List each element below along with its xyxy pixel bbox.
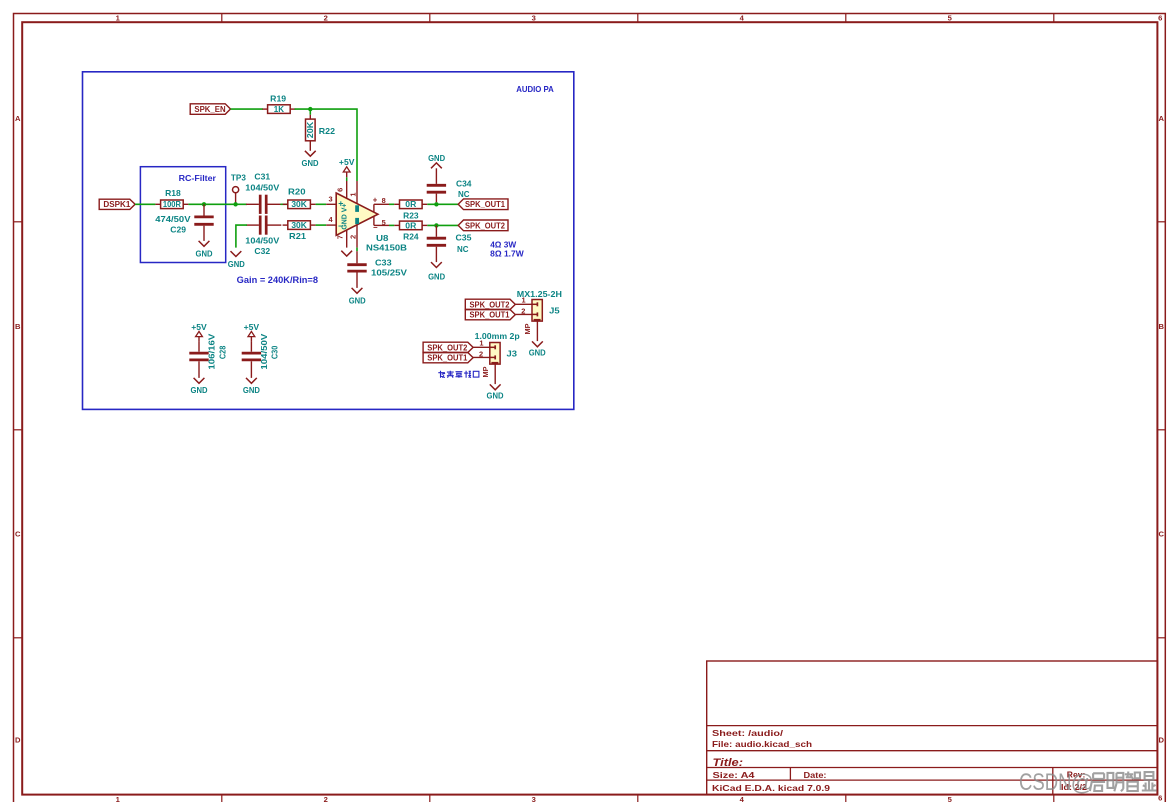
- resistor R21: [283, 221, 316, 241]
- svg-text:R23: R23: [403, 211, 419, 221]
- title block text: [712, 729, 1087, 793]
- connector J3: [475, 331, 520, 384]
- global label DSPK1: [99, 199, 135, 209]
- ground below C30: [243, 378, 260, 395]
- svg-text:SPK_OUT2: SPK_OUT2: [470, 300, 511, 309]
- svg-text:A: A: [15, 114, 21, 123]
- svg-text:J5: J5: [549, 305, 560, 315]
- svg-text:SPK_OUT1: SPK_OUT1: [470, 311, 511, 320]
- svg-text:Size: A4: Size: A4: [713, 771, 756, 780]
- svg-text:DSPK1: DSPK1: [103, 200, 131, 209]
- svg-text:+: +: [373, 196, 378, 205]
- svg-text:B: B: [1159, 322, 1165, 331]
- svg-text:4: 4: [740, 795, 745, 802]
- ground below C32: [228, 251, 245, 269]
- wire R21 to U8 pin 4: [316, 224, 327, 226]
- global label SPK_OUT2 at J3 pin 1: [423, 342, 473, 352]
- svg-text:1: 1: [349, 193, 358, 197]
- svg-text:GND: GND: [428, 272, 445, 282]
- wire C31 to R20: [281, 203, 288, 205]
- svg-text:MP: MP: [481, 367, 490, 378]
- junction at TP3: [233, 202, 237, 206]
- ground below C28: [191, 378, 208, 395]
- svg-text:7: 7: [335, 235, 344, 239]
- wire DSPK1 to R18: [135, 203, 155, 205]
- svg-text:Title:: Title:: [713, 757, 744, 769]
- svg-text:NC: NC: [458, 189, 470, 199]
- svg-text:30K: 30K: [291, 200, 307, 209]
- svg-text:3: 3: [532, 795, 536, 802]
- svg-text:C: C: [15, 530, 21, 539]
- svg-text:2: 2: [479, 350, 483, 359]
- resistor R20: [283, 186, 316, 209]
- capacitor C30: [242, 333, 280, 378]
- svg-text:KiCad E.D.A. kicad 7.0.9: KiCad E.D.A. kicad 7.0.9: [712, 784, 831, 793]
- ground below C35: [428, 262, 445, 282]
- wire R24 to SPK_OUT2: [427, 224, 458, 226]
- svg-text:8Ω 1.7W: 8Ω 1.7W: [490, 248, 524, 258]
- wire R23 to SPK_OUT1: [427, 203, 458, 205]
- wire C32 to ground: [236, 225, 247, 248]
- capacitor C31: [245, 171, 281, 214]
- svg-text:104/50V: 104/50V: [259, 333, 269, 369]
- svg-text:D: D: [15, 736, 21, 745]
- svg-text:106/16V: 106/16V: [207, 333, 217, 369]
- title block: [707, 661, 1158, 795]
- global label SPK_OUT2 at J5 pin 1: [465, 299, 515, 309]
- svg-text:1: 1: [116, 795, 121, 802]
- svg-text:File: audio.kicad_sch: File: audio.kicad_sch: [712, 740, 812, 749]
- global label SPK_EN: [190, 104, 230, 115]
- svg-text:SPK_OUT2: SPK_OUT2: [465, 221, 506, 230]
- svg-text:C28: C28: [217, 345, 227, 359]
- svg-text:2: 2: [324, 14, 328, 23]
- power +5V at C30: [244, 322, 260, 342]
- svg-text:SPK_OUT1: SPK_OUT1: [465, 200, 506, 209]
- ground below U8 pin 7: [341, 251, 352, 256]
- svg-text:104/50V: 104/50V: [245, 235, 279, 245]
- svg-text:MP: MP: [523, 324, 532, 335]
- svg-text:1: 1: [522, 296, 526, 305]
- svg-text:6: 6: [1158, 794, 1162, 802]
- capacitor C35: [427, 225, 472, 262]
- svg-text:3: 3: [329, 194, 333, 203]
- capacitor C33: [347, 251, 407, 288]
- svg-text:R19: R19: [270, 93, 286, 103]
- svg-text:104/50V: 104/50V: [245, 182, 279, 192]
- global label SPK_OUT1 at J3 pin 2: [423, 353, 473, 363]
- svg-text:5: 5: [948, 795, 953, 802]
- global label SPK_OUT2: [458, 220, 508, 231]
- svg-text:20K: 20K: [306, 121, 315, 138]
- svg-text:GND: GND: [228, 259, 245, 269]
- svg-text:A: A: [1159, 114, 1165, 123]
- svg-text:4: 4: [329, 215, 334, 224]
- wire SPK_EN to R19: [231, 108, 264, 110]
- test point TP3: [231, 173, 246, 205]
- svg-text:R18: R18: [165, 188, 181, 198]
- svg-text:C35: C35: [456, 232, 472, 242]
- svg-text:C31: C31: [254, 171, 270, 181]
- svg-text:1K: 1K: [274, 105, 284, 114]
- svg-text:105/25V: 105/25V: [371, 267, 407, 277]
- wire R19 to U8 pin 1: [295, 109, 358, 181]
- wire U8 pin 8 to R23: [389, 203, 394, 205]
- junction R19/R22 node: [308, 107, 312, 111]
- svg-text:2: 2: [521, 307, 525, 316]
- svg-text:474/50V: 474/50V: [155, 214, 191, 224]
- svg-text:SPK_OUT1: SPK_OUT1: [427, 354, 468, 363]
- wire U8 pin 2 to C33: [356, 248, 358, 252]
- AUDIO PA section box: [83, 72, 574, 410]
- capacitor C34: [427, 168, 472, 202]
- note speaker power: [490, 239, 524, 258]
- junction at C29: [202, 202, 206, 206]
- svg-text:6: 6: [336, 188, 345, 192]
- svg-text:CSDN: CSDN: [1019, 769, 1072, 796]
- capacitor C29: [155, 204, 213, 241]
- svg-text:GND: GND: [349, 296, 366, 306]
- ground below R22: [302, 151, 319, 168]
- svg-text:TP3: TP3: [231, 173, 246, 183]
- connector J5: [517, 289, 562, 341]
- svg-text:GND: GND: [529, 347, 546, 357]
- wire U8 pin 5 to R24: [389, 224, 394, 226]
- svg-text:SPK_EN: SPK_EN: [194, 105, 225, 114]
- svg-text:Gain = 240K/Rin=8: Gain = 240K/Rin=8: [237, 275, 318, 285]
- capacitor C32: [245, 216, 281, 256]
- svg-text:3: 3: [532, 14, 536, 23]
- svg-text:1: 1: [479, 339, 483, 348]
- power +5V at C28: [191, 322, 207, 342]
- resistor R22: [306, 109, 336, 151]
- svg-text:R24: R24: [403, 232, 419, 242]
- svg-text:SPK_OUT2: SPK_OUT2: [427, 343, 468, 352]
- svg-text:C30: C30: [270, 345, 280, 359]
- svg-text:+5V: +5V: [339, 157, 355, 167]
- svg-text:R21: R21: [289, 231, 306, 241]
- note speaker interface (CJK): [438, 371, 479, 378]
- junction at C35: [434, 223, 438, 227]
- svg-text:GND: GND: [196, 249, 213, 259]
- svg-text:100R: 100R: [163, 200, 181, 209]
- svg-text:+5V: +5V: [244, 322, 260, 332]
- svg-text:C29: C29: [170, 225, 186, 235]
- svg-text:−: −: [373, 223, 378, 232]
- svg-text:GND V+: GND V+: [339, 203, 348, 230]
- svg-text:0R: 0R: [405, 200, 416, 209]
- ground below C33: [349, 288, 366, 306]
- svg-text:+5V: +5V: [191, 322, 207, 332]
- J5 pin wires and numbers: [515, 296, 532, 316]
- svg-text:B: B: [15, 322, 21, 331]
- svg-text:GND: GND: [191, 385, 208, 395]
- resistor R24: [394, 221, 427, 242]
- svg-text:30K: 30K: [291, 221, 307, 230]
- svg-text:R22: R22: [319, 126, 335, 136]
- svg-text:2: 2: [324, 795, 328, 802]
- svg-text:AUDIO PA: AUDIO PA: [516, 85, 554, 94]
- svg-text:GND: GND: [487, 391, 504, 401]
- watermark CSDN: [1019, 769, 1157, 796]
- svg-text:GND: GND: [243, 385, 260, 395]
- ground below J3 MP: [487, 384, 504, 400]
- svg-text:C33: C33: [375, 258, 392, 268]
- resistor R18: [155, 188, 188, 209]
- svg-text:6: 6: [1158, 14, 1162, 23]
- svg-text:Sheet: /audio/: Sheet: /audio/: [712, 729, 784, 738]
- svg-text:GND: GND: [302, 158, 319, 168]
- svg-text:NS4150B: NS4150B: [366, 242, 407, 252]
- junction at C34: [434, 202, 438, 206]
- global label SPK_OUT1: [458, 199, 508, 210]
- ground above C34: [428, 153, 445, 168]
- svg-text:0R: 0R: [405, 221, 416, 230]
- capacitor C28: [189, 333, 227, 378]
- ground below J5 MP: [529, 341, 546, 357]
- svg-text:GND: GND: [428, 153, 445, 163]
- RC-Filter box: [140, 167, 225, 263]
- resistor R19: [262, 93, 295, 114]
- svg-text:C32: C32: [254, 246, 270, 256]
- svg-text:8: 8: [382, 196, 386, 205]
- svg-text:R20: R20: [288, 186, 306, 196]
- wire R20 to U8 pin 3: [316, 203, 327, 205]
- resistor R23: [394, 200, 427, 221]
- svg-text:RC-Filter: RC-Filter: [179, 174, 216, 183]
- svg-text:D: D: [1159, 736, 1165, 745]
- ground below C29: [196, 241, 213, 259]
- svg-text:2: 2: [349, 235, 358, 239]
- svg-text:5: 5: [382, 218, 386, 227]
- svg-text:NC: NC: [457, 244, 469, 254]
- svg-text:C: C: [1159, 530, 1165, 539]
- wire R18 to C31: [188, 203, 247, 205]
- power +5V at U8 pin 6: [339, 157, 355, 181]
- svg-text:Date:: Date:: [804, 771, 827, 780]
- J3 pin wires and numbers: [473, 339, 490, 359]
- global label SPK_OUT1 at J5 pin 2: [465, 310, 515, 320]
- svg-text:J3: J3: [507, 348, 518, 358]
- svg-text:C34: C34: [456, 178, 472, 188]
- op-amp U8 NS4150B: [326, 181, 407, 252]
- note gain formula: [237, 275, 318, 285]
